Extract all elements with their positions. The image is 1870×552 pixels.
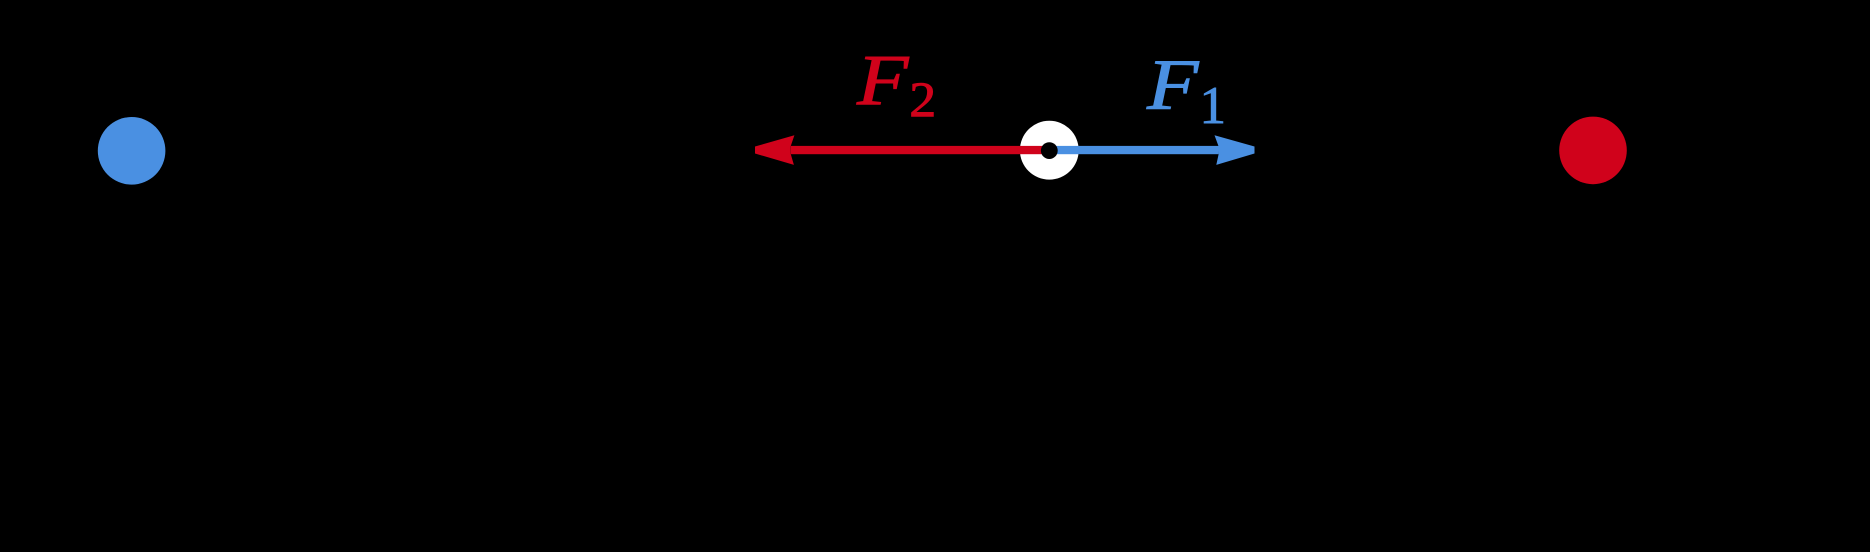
charge Q1 (blue dot, left) [98,117,166,185]
label F1 [1146,44,1226,135]
svg-text:1: 1 [1200,77,1227,135]
test charge (white circle, center) [1020,121,1079,180]
label F2 [856,39,936,127]
svg-text:F: F [1146,44,1200,124]
force arrow F1 shaft [1050,146,1219,154]
center pivot dot (black) [1041,142,1058,159]
svg-text:2: 2 [909,73,936,128]
charge Q2 (red dot, right) [1559,117,1627,185]
force arrow F2 shaft [791,146,1050,154]
svg-text:F: F [856,39,910,119]
force arrow F1 head [1215,135,1255,165]
force arrow F2 head [755,135,794,165]
